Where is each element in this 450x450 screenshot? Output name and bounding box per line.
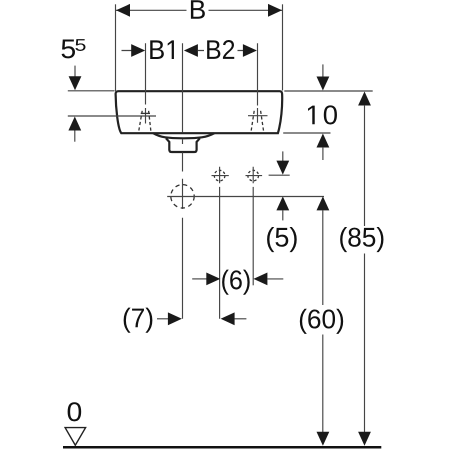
10 top ref line xyxy=(284,90,372,92)
dim 60 top arrow xyxy=(317,196,330,210)
10 up arrow xyxy=(317,134,330,148)
label (6) xyxy=(222,270,250,295)
label B2 xyxy=(207,40,234,59)
label 10 xyxy=(308,105,337,124)
dim 7 arrows xyxy=(157,318,168,320)
10 down arrow xyxy=(322,64,324,77)
label (60) xyxy=(300,309,343,334)
dim 60 bottom arrow xyxy=(317,432,330,446)
dimension B1 B2 line xyxy=(122,50,244,52)
floor baseline xyxy=(63,446,381,449)
dim 5 up arrow xyxy=(276,196,289,210)
label B1 xyxy=(150,40,174,59)
centerline xyxy=(182,43,184,319)
dimension B line xyxy=(116,9,282,11)
ref line y196 xyxy=(167,196,324,198)
fixing hole 2 xyxy=(248,170,259,181)
label 0 xyxy=(68,402,82,421)
label (7) xyxy=(124,308,153,333)
dim 5 tick xyxy=(269,174,290,176)
5.5 dim up arrow xyxy=(68,117,81,131)
dim 85 top arrow xyxy=(358,92,371,106)
washbasin outline xyxy=(116,91,283,133)
B1 arrow xyxy=(131,44,145,57)
tap hole 2 dashed xyxy=(251,111,264,132)
bowl underside xyxy=(153,133,214,138)
datum triangle xyxy=(65,428,86,446)
B1 extension / tap1 centerline xyxy=(145,43,147,123)
B2 extension / tap2 centerline xyxy=(257,43,259,123)
dim 60 line xyxy=(322,210,324,434)
B extension line right xyxy=(282,4,284,90)
5.5 lower ref line xyxy=(68,115,156,117)
fixing hole 2 dropline xyxy=(252,187,254,285)
dim 85 line xyxy=(364,105,366,434)
10 bottom ref line xyxy=(283,132,330,134)
B2 left arrow xyxy=(184,44,198,57)
dim 5 down arrow xyxy=(282,151,284,161)
5.5 upper ref line xyxy=(68,90,115,92)
drain outlet circle xyxy=(171,185,194,208)
fixing hole 1 xyxy=(214,170,225,181)
5.5 dim down arrow xyxy=(74,66,76,77)
dimension B arrows xyxy=(116,4,130,17)
tap2 crossbar xyxy=(248,115,268,117)
B extension line left xyxy=(115,4,117,91)
B2 right arrow xyxy=(243,44,257,57)
label 5^5 xyxy=(62,40,75,59)
label B xyxy=(191,0,205,19)
label (5) xyxy=(267,227,297,252)
drain stub xyxy=(166,138,200,152)
label (85) xyxy=(340,227,383,252)
tap hole 1 dashed xyxy=(139,111,151,132)
dim 85 bottom arrow xyxy=(358,432,371,446)
fixing hole 1 dropline xyxy=(219,187,221,319)
dim 6 arrows xyxy=(192,278,206,280)
